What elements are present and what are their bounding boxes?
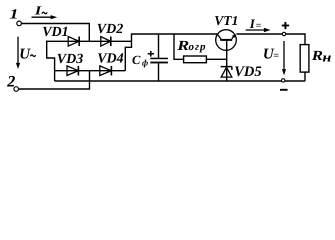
diode VD1 bbox=[68, 37, 79, 47]
wire bridge top branch bbox=[47, 40, 132, 42]
wire capacitor bottom lead bbox=[158, 63, 160, 81]
svg-text:VD1: VD1 bbox=[42, 25, 68, 40]
svg-text:R: R bbox=[176, 39, 189, 54]
transistor VT1 bbox=[216, 30, 237, 51]
diode VD2 bbox=[101, 37, 111, 47]
capacitor C_f plates bbox=[150, 58, 168, 64]
wire bridge left side bbox=[47, 41, 55, 81]
resistor Rогр bbox=[184, 56, 207, 63]
label I~ tilde subscript bbox=[42, 12, 47, 14]
wire AC input 2 bbox=[19, 71, 90, 89]
svg-text:VD4: VD4 bbox=[97, 52, 123, 67]
node - output terminal bbox=[282, 79, 285, 82]
wire Rогр to base node bbox=[206, 58, 226, 60]
wire AC input 1 bbox=[22, 24, 90, 42]
diode VD3 bbox=[67, 66, 78, 76]
diode VD4 bbox=[100, 66, 112, 76]
wire base lead bbox=[226, 41, 228, 67]
wire positive rail bbox=[132, 33, 219, 35]
label plus bbox=[282, 22, 289, 29]
svg-text:VD2: VD2 bbox=[97, 22, 123, 37]
resistor Rн bbox=[300, 45, 309, 73]
wire bridge bottom branch bbox=[55, 70, 126, 72]
svg-text:н: н bbox=[322, 49, 331, 64]
wire zener to bottom rail bbox=[226, 67, 228, 81]
svg-text:U: U bbox=[19, 47, 31, 63]
svg-text:огр: огр bbox=[189, 41, 207, 53]
svg-text:1: 1 bbox=[9, 8, 18, 23]
wire Rogr branch from rail bbox=[174, 33, 184, 59]
voltage arrow U= bbox=[282, 41, 286, 75]
svg-text:C: C bbox=[132, 53, 141, 67]
node + output terminal bbox=[282, 32, 285, 35]
wire bridge right side bbox=[125, 33, 131, 70]
wire capacitor top lead bbox=[158, 34, 160, 58]
svg-text:=: = bbox=[273, 51, 279, 62]
zener diode VD5 bbox=[221, 67, 232, 78]
svg-text:VT1: VT1 bbox=[214, 13, 238, 28]
voltage arrow U~ bbox=[16, 37, 20, 69]
polarity plus of capacitor bbox=[148, 51, 154, 57]
wire emitter output bbox=[236, 34, 305, 45]
svg-text:VD5: VD5 bbox=[234, 64, 261, 80]
current arrow I= bbox=[246, 28, 271, 33]
label minus bbox=[280, 89, 288, 91]
svg-text:R: R bbox=[311, 49, 323, 64]
terminal 1 bbox=[17, 21, 22, 26]
current arrow I~ bbox=[32, 15, 58, 19]
terminal 2 bbox=[14, 87, 19, 92]
wire negative rail bbox=[55, 80, 305, 82]
svg-text:VD3: VD3 bbox=[57, 52, 83, 67]
wire load bottom lead bbox=[304, 72, 306, 81]
label U~ tilde subscript bbox=[30, 55, 35, 57]
svg-text:ф: ф bbox=[142, 58, 148, 68]
